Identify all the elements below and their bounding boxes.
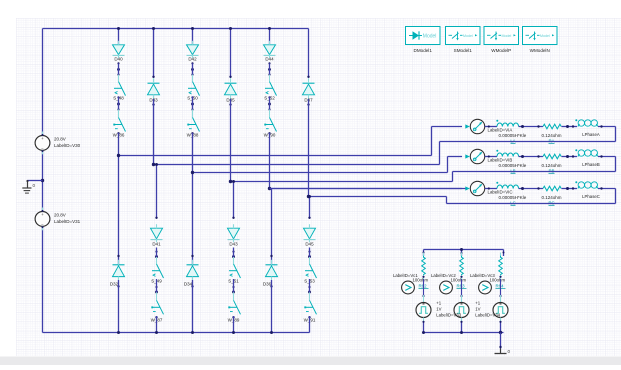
svg-text:Model: Model — [502, 34, 512, 38]
svg-text:100ohm: 100ohm — [413, 277, 429, 282]
svg-text:LPhaseB: LPhaseB — [582, 162, 600, 167]
switch W_88 — [187, 110, 200, 138]
wire ammeter-inductor B — [485, 155, 497, 157]
wire W_91 to rail — [308, 316, 310, 333]
diode D37 — [303, 78, 315, 102]
model block DModel1 — [406, 27, 441, 53]
wire bus phase C return — [307, 195, 447, 198]
node midpoint junction — [41, 179, 44, 182]
switch W_89 — [228, 292, 241, 322]
wire W_89 to rail — [232, 316, 234, 333]
svg-text:D34: D34 — [184, 282, 193, 287]
switch S_53 — [304, 257, 316, 284]
wire V33 to rail — [460, 321, 462, 333]
wire bus phase B return — [229, 180, 453, 183]
wire W_88 to bus — [191, 132, 193, 172]
wire coil-return B — [453, 155, 616, 181]
wire W_86 to bus — [117, 132, 119, 155]
ground GND1 — [22, 180, 35, 193]
wire V32 to rail — [422, 321, 424, 333]
svg-text:LabelID=VIC: LabelID=VIC — [488, 190, 513, 195]
wire D34 to rail — [191, 280, 193, 333]
wire inductor-resistor B — [519, 155, 543, 158]
wire phase C input — [270, 188, 463, 190]
wire D43-S_51 — [233, 248, 235, 258]
wire D35 to bus — [229, 99, 231, 182]
switch W_86 — [113, 110, 126, 138]
voltmeter Vc1 — [402, 281, 415, 294]
ammeter VIB — [470, 149, 512, 163]
svg-text:20.8V: 20.8V — [54, 136, 66, 141]
wire top DC rail — [43, 28, 309, 30]
node bus junctions lower legs — [155, 163, 311, 198]
switch S_48 — [113, 75, 125, 101]
svg-text:Model: Model — [423, 33, 437, 39]
resistor R63 100ohm — [431, 253, 467, 289]
svg-text:R64: R64 — [496, 283, 505, 288]
svg-text:LPhaseA: LPhaseA — [582, 132, 600, 137]
wire S_49-W_87 — [156, 279, 158, 292]
wire leg D45 upper — [308, 197, 310, 220]
wire inductor-resistor A — [519, 125, 543, 128]
model block SModel1 — [446, 27, 481, 53]
svg-text:LB: LB — [510, 168, 515, 173]
node below D42 — [191, 62, 194, 75]
wire to ground — [28, 180, 43, 182]
wire ammeter-inductor A — [485, 125, 497, 127]
wire resistor-coil A — [562, 125, 578, 128]
voltmeter Vc2 — [440, 281, 453, 294]
svg-text:LabelID=V30: LabelID=V30 — [54, 143, 81, 148]
wire bus phase A return — [152, 163, 440, 166]
wire D33 to bus — [152, 99, 154, 165]
diode D45 — [304, 224, 316, 246]
resistor R64 100ohm — [470, 253, 506, 289]
diode D42 — [187, 41, 199, 62]
wire bus phase B top — [191, 171, 448, 174]
ammeter VIA — [470, 119, 512, 133]
wire S_48-W_86 — [118, 97, 120, 110]
node top rail junctions — [117, 27, 271, 30]
svg-text:D32: D32 — [110, 282, 119, 287]
wire resistor-coil C — [562, 187, 578, 190]
svg-text:WModelN: WModelN — [530, 48, 550, 53]
switch W_90 — [264, 110, 277, 138]
resistor R62 100ohm — [393, 253, 429, 289]
node below D45 — [308, 251, 311, 259]
wire R64-V34 — [499, 276, 501, 297]
node below D40 — [117, 62, 120, 75]
svg-text:Model: Model — [463, 34, 473, 38]
svg-text:Model: Model — [540, 34, 550, 38]
wire S_50-W_88 — [192, 97, 194, 110]
pulse source V33 — [436, 295, 469, 322]
wire R62-V32 — [422, 276, 424, 297]
wire leg D41 upper — [155, 165, 157, 220]
svg-text:SModel1: SModel1 — [454, 48, 473, 53]
svg-text:LabelID=V33: LabelID=V33 — [436, 312, 462, 317]
diode D40 — [113, 41, 125, 62]
switch W_87 — [151, 292, 164, 322]
wire D32 to rail — [117, 280, 119, 333]
node below S_53 — [308, 286, 311, 294]
inductor LC 0.00005H — [496, 182, 526, 206]
wire leg D36 — [270, 189, 272, 266]
svg-text:R62: R62 — [419, 283, 428, 288]
bottom gray band — [0, 357, 621, 366]
wire D37 to bus — [307, 99, 309, 197]
wire leg D32 — [117, 156, 119, 266]
wire bus phase A top — [117, 154, 432, 157]
diode D41 — [151, 224, 163, 246]
wire ammeter-inductor C — [485, 187, 497, 189]
ground GND2 — [495, 349, 511, 355]
svg-text:LabelID=V31: LabelID=V31 — [54, 219, 81, 224]
wire S_52-W_90 — [269, 97, 271, 110]
resistor RC 0.124ohm — [542, 186, 562, 205]
wire bottom DC rail — [43, 332, 310, 334]
inductor LPhaseA — [575, 119, 600, 137]
svg-text:0: 0 — [508, 349, 511, 354]
model block WModelN — [523, 27, 558, 53]
diode D34 — [184, 260, 199, 287]
wire R63-V33 — [460, 276, 462, 297]
ammeter VIC — [470, 181, 512, 195]
svg-text:LabelID=VIA: LabelID=VIA — [488, 128, 513, 133]
arrow phase A current direction — [465, 124, 470, 128]
model block WModelP — [484, 27, 519, 53]
node below S_51 — [232, 286, 235, 294]
voltage source V30 — [35, 132, 81, 155]
svg-text:LabelID=VIB: LabelID=VIB — [488, 158, 513, 163]
resistor RB 0.124ohm — [542, 154, 562, 173]
node below S_49 — [155, 286, 158, 294]
svg-text:R63: R63 — [457, 283, 466, 288]
wire leg D40 upper — [118, 29, 120, 45]
svg-text:1V: 1V — [475, 306, 480, 311]
node below S_48 — [117, 96, 120, 110]
svg-text:RC: RC — [548, 200, 554, 205]
switch S_52 — [264, 75, 276, 101]
diode D43 — [228, 224, 240, 246]
wire phase B input riser — [448, 157, 463, 173]
wire S_53-W_91 — [309, 279, 311, 292]
wire D36 to rail — [270, 280, 272, 333]
wire D41-S_49 — [156, 248, 158, 258]
wire leg D43 upper — [232, 182, 234, 220]
svg-text:RB: RB — [548, 168, 554, 173]
wire phase A input riser — [432, 127, 463, 156]
resistor RA 0.124ohm — [542, 124, 562, 143]
wire W_90 to bus — [268, 132, 270, 188]
svg-text:D45: D45 — [305, 241, 314, 246]
wire D40-S_48 — [118, 63, 120, 74]
switch S_49 — [151, 257, 163, 284]
svg-text:0: 0 — [33, 183, 36, 188]
arrow phase B current direction — [465, 154, 470, 158]
wire S_51-W_89 — [233, 279, 235, 292]
wire D44-S_52 — [269, 63, 271, 74]
svg-text:D44: D44 — [265, 57, 274, 62]
svg-text:20.8V: 20.8V — [54, 213, 66, 218]
wire control top rail — [423, 248, 505, 256]
svg-text:100ohm: 100ohm — [451, 277, 467, 282]
arrow phase C current direction — [465, 186, 470, 190]
inductor LB 0.00005H — [496, 150, 526, 174]
wire leg D37 upper — [307, 29, 309, 79]
diode D35 — [225, 78, 237, 102]
wire left DC rail — [42, 29, 44, 333]
wire leg D42 upper — [192, 29, 194, 45]
node below D44 — [268, 62, 271, 75]
pulse source V32 — [416, 295, 431, 322]
node below S_50 — [191, 96, 194, 110]
svg-text:+1: +1 — [475, 301, 481, 306]
diode D33 — [148, 78, 160, 102]
svg-text:D42: D42 — [188, 57, 197, 62]
wire leg D33 upper — [152, 29, 154, 79]
wire inductor-resistor C — [519, 187, 543, 190]
node below S_52 — [268, 96, 271, 110]
wire leg D44 upper — [269, 29, 271, 45]
svg-text:LPhaseC: LPhaseC — [582, 194, 600, 199]
voltage source V31 — [35, 208, 81, 231]
svg-text:LabelID=V34: LabelID=V34 — [475, 312, 501, 317]
diode D32 — [110, 260, 125, 287]
svg-text:D41: D41 — [152, 241, 161, 246]
inductor LPhaseB — [575, 149, 600, 167]
inductor LA 0.00005H — [496, 120, 526, 144]
switch W_91 — [304, 292, 317, 322]
wire coil-return A — [440, 125, 616, 164]
pulse source V34 — [475, 295, 508, 322]
wire control bottom rail — [422, 331, 504, 334]
wire V34 to rail — [499, 321, 501, 333]
wire leg D34 — [191, 173, 193, 266]
node below D41 — [155, 251, 158, 259]
node bottom rail junctions — [117, 331, 273, 334]
svg-text:DModel1: DModel1 — [414, 48, 433, 53]
wire to ground GND2 — [499, 333, 501, 349]
diode D36 — [263, 260, 278, 287]
diode D44 — [264, 41, 276, 62]
svg-text:LC: LC — [510, 200, 516, 205]
inductor LPhaseC — [575, 181, 600, 199]
svg-text:WModelP: WModelP — [491, 48, 511, 53]
wire D45-S_53 — [309, 248, 311, 258]
svg-text:D36: D36 — [263, 282, 272, 287]
wire leg D35 upper — [229, 29, 231, 79]
svg-text:LA: LA — [510, 138, 515, 143]
switch S_50 — [187, 75, 199, 101]
svg-text:D40: D40 — [114, 57, 123, 62]
wire D42-S_50 — [192, 63, 194, 74]
svg-text:+1: +1 — [436, 301, 442, 306]
wire resistor-coil B — [562, 155, 578, 158]
wire coil-return C — [447, 187, 616, 203]
svg-text:100ohm: 100ohm — [490, 277, 506, 282]
node below D43 — [232, 251, 235, 259]
svg-text:RA: RA — [548, 138, 554, 143]
switch S_51 — [228, 257, 240, 284]
voltmeter Vc3 — [479, 281, 492, 294]
svg-text:D43: D43 — [229, 241, 238, 246]
svg-text:1V: 1V — [436, 306, 441, 311]
wire W_87 to rail — [155, 316, 157, 333]
wire bus phase C top — [268, 187, 466, 190]
